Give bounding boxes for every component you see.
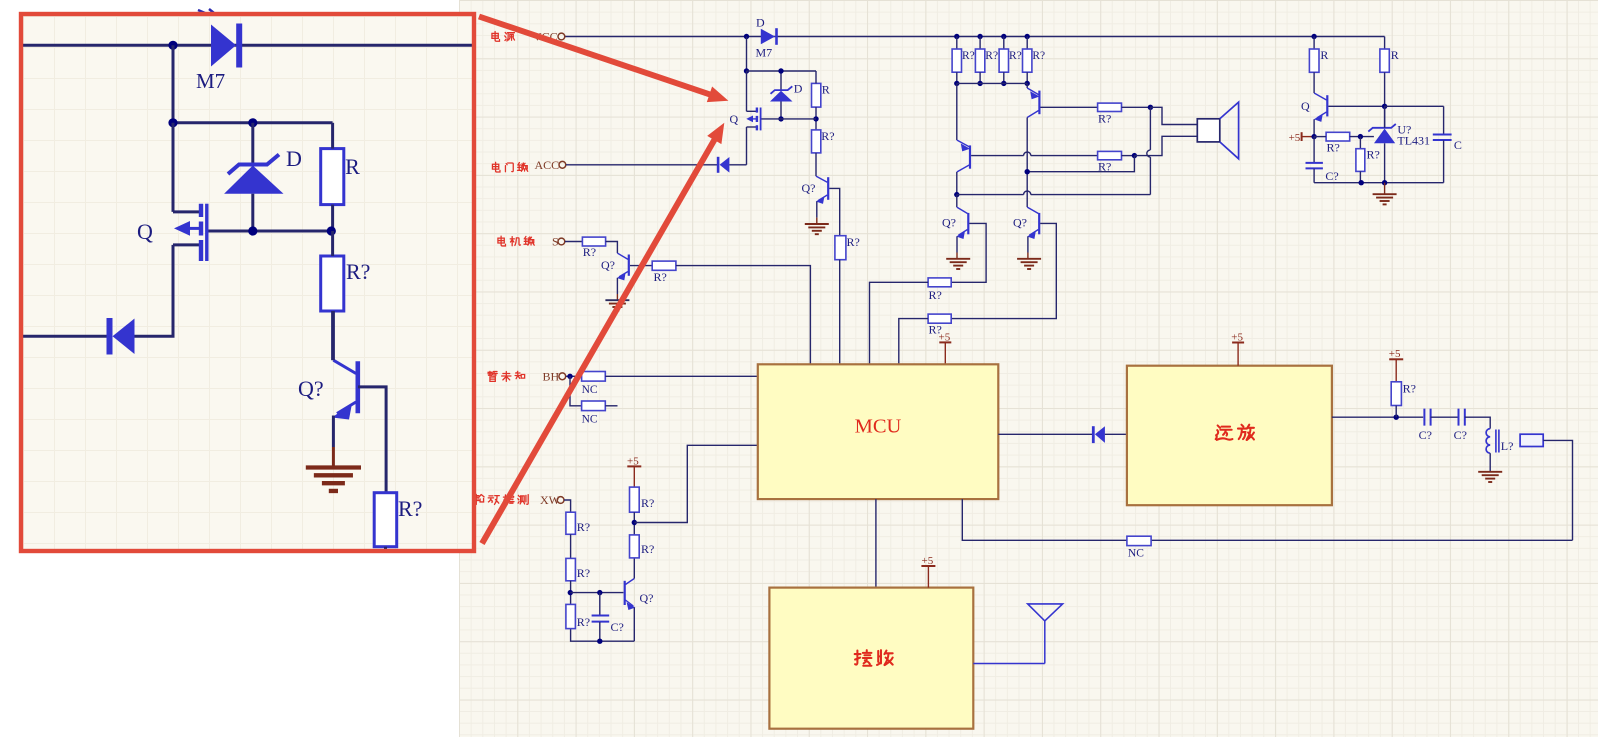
diode D M7 (main) xyxy=(761,28,778,45)
transistor Q? T3 xyxy=(956,195,968,239)
resistor R? (speaker row 2) xyxy=(1098,151,1122,159)
wire: MCU to RX xyxy=(875,499,877,587)
node: T1 collector mid junction xyxy=(1025,169,1030,174)
ground (TL431) xyxy=(1384,183,1386,195)
wire: R top lead (inset) xyxy=(331,123,334,149)
block MCU xyxy=(758,364,999,499)
svg-text:C?: C? xyxy=(1454,428,1467,442)
node: output junction xyxy=(1394,415,1399,420)
svg-text:+5: +5 xyxy=(1231,331,1243,343)
mosfet Q (inset) xyxy=(173,123,207,336)
svg-text:Q?: Q? xyxy=(1013,216,1027,230)
wire: row2 to speaker xyxy=(1122,155,1135,157)
wire: C2 to inductor xyxy=(1465,417,1490,428)
transistor Q? (inset) xyxy=(332,360,358,419)
transistor Q? (XW) xyxy=(625,579,636,611)
wire: XW2 down + bottom rail xyxy=(571,581,635,641)
svg-text:R?: R? xyxy=(577,615,590,629)
wire: XW Q? collector xyxy=(633,558,635,579)
wire: R? to junction xyxy=(1395,406,1397,418)
ground (T4) xyxy=(1027,253,1029,259)
wire: R? to bottom rail xyxy=(1359,171,1361,182)
wire: R top lead xyxy=(815,71,817,83)
svg-text:Q?: Q? xyxy=(802,181,816,195)
resistor R? (bank 3) xyxy=(1003,37,1005,50)
+5 (MCU top) xyxy=(939,341,951,343)
label dianjisuo (motor lock) xyxy=(498,236,506,246)
node: VCC bank junction 3 xyxy=(1001,34,1006,39)
port BH xyxy=(559,373,566,380)
wire: R? top lead (inset) xyxy=(331,231,334,256)
resistor R? (XW 2) xyxy=(566,558,576,580)
svg-text:M7: M7 xyxy=(196,69,225,93)
wire: Q? base lead xyxy=(829,188,839,235)
wire: gate rail y=231 (inset) xyxy=(208,230,333,233)
svg-text:R?: R? xyxy=(847,235,860,249)
antenna xyxy=(973,604,1062,664)
wire: inset horizontal rail y=122.8 xyxy=(173,121,333,124)
mosfet Q (main) xyxy=(746,71,760,165)
block OPAMP (yunfang) xyxy=(1127,366,1332,506)
wire: S base resistor to MCU xyxy=(676,266,811,365)
PNP T2 (left) xyxy=(957,83,970,172)
svg-text:R?: R? xyxy=(1327,141,1340,155)
port S xyxy=(558,238,565,245)
resistor R? (T4 base) xyxy=(928,314,951,323)
svg-text:C?: C? xyxy=(611,620,624,634)
+5 (TL431) xyxy=(1301,132,1303,141)
node: VCC junction (TL431) xyxy=(1311,34,1316,39)
wire: T4 emitter down xyxy=(1027,237,1029,253)
resistor R? (TL431 lower) xyxy=(1359,137,1361,149)
wire: row2 junction drop xyxy=(1027,156,1134,172)
wire: connector loop to NC rail xyxy=(1543,440,1572,540)
wire: T2 collector down xyxy=(956,172,958,195)
svg-text:C?: C? xyxy=(1325,169,1338,183)
resistor R? (gate divider) xyxy=(812,130,821,153)
wire: junction to speaker top lead xyxy=(1150,107,1197,124)
label dianyuan (power) xyxy=(492,31,500,41)
resistor NC 2 xyxy=(582,401,606,411)
wire: S lead xyxy=(565,241,582,243)
label jieshou (receiver title) xyxy=(855,650,872,666)
node: inset top junction xyxy=(168,41,177,50)
svg-text:R?: R? xyxy=(1403,382,1416,396)
svg-text:D: D xyxy=(286,146,302,171)
resistor R? (bank 4) xyxy=(1026,37,1028,50)
wire: inset emitter down xyxy=(332,416,335,448)
svg-text:R?: R? xyxy=(641,542,654,556)
resistor R (inset) xyxy=(321,149,344,205)
resistor NC (rail) xyxy=(1127,536,1151,545)
svg-text:R?: R? xyxy=(654,270,667,284)
wire: R? to ref junction xyxy=(1350,136,1374,138)
ground (inset) xyxy=(332,447,335,466)
svg-text:NC: NC xyxy=(582,384,598,396)
port ACC xyxy=(559,161,566,168)
port VCC xyxy=(558,33,565,40)
node: mosfet top junction xyxy=(744,68,749,73)
+5 (opamp) xyxy=(1232,342,1244,344)
svg-text:+5: +5 xyxy=(939,331,951,343)
wire: VCC drop to mosfet xyxy=(746,37,748,72)
wire: R? to Q? collector xyxy=(815,153,817,176)
svg-text:R?: R? xyxy=(641,496,654,510)
wire: C1-C2 xyxy=(1431,416,1459,418)
wire: NC1 to MCU xyxy=(605,375,758,377)
annotation arrow 1 (top) xyxy=(478,14,728,102)
wire: Q? emitter down xyxy=(816,202,818,218)
inductor L? xyxy=(1486,429,1499,454)
svg-text:NC: NC xyxy=(1128,548,1144,560)
wire: S resistor to Q? xyxy=(606,242,618,254)
wire: XW1-XW2 xyxy=(570,534,572,558)
resistor R (TL431 right) xyxy=(1380,49,1389,72)
wire: diode to opamp xyxy=(1105,433,1127,435)
capacitor C? (TL431 left) xyxy=(1306,137,1323,183)
wire: VCC corner to R right xyxy=(1384,37,1386,50)
wire: T4 base resistor to MCU xyxy=(899,319,928,365)
+5 (output) xyxy=(1389,358,1403,360)
wire: MCU right to diode xyxy=(998,433,1092,435)
wire: XW lead xyxy=(564,500,571,512)
wire: opamp output xyxy=(1332,416,1423,418)
node: +5 junction xyxy=(1311,134,1316,139)
resistor R? (inset, gate divider) xyxy=(321,256,344,311)
svg-text:S: S xyxy=(552,235,559,249)
wire: diode to mosfet source (inset) xyxy=(135,335,175,338)
node: XW divider junction xyxy=(568,590,573,595)
svg-text:R?: R? xyxy=(577,566,590,580)
TL431 U? xyxy=(1368,124,1396,143)
node: VCC bank junction 1 xyxy=(954,34,959,39)
svg-text:R?: R? xyxy=(1009,50,1022,62)
wire: inset left diode rail xyxy=(23,335,107,338)
svg-text:Q?: Q? xyxy=(942,216,956,230)
resistor NC 1 xyxy=(582,372,606,382)
transistor T1 (PNP top) xyxy=(1027,83,1039,117)
resistor R? (T3 base) xyxy=(928,278,951,287)
node: inset R junction xyxy=(327,226,336,235)
wire: R bottom lead xyxy=(815,107,817,130)
svg-text:Q: Q xyxy=(137,219,153,244)
resistor R? (S series) xyxy=(582,237,605,246)
wire: bottom rail (TL431) xyxy=(1314,182,1444,184)
wire: +5 junction to R? xyxy=(1314,136,1326,138)
resistor R? (XW 1) xyxy=(566,512,576,534)
node: C? bottom junction xyxy=(597,639,602,644)
wire: row1 to speaker xyxy=(1122,106,1151,108)
ground (S branch) xyxy=(616,294,618,300)
svg-text:R?: R? xyxy=(962,50,975,62)
node: bank bottom junction 4 xyxy=(1025,81,1030,86)
svg-text:Q: Q xyxy=(1301,99,1310,113)
svg-text:R: R xyxy=(1391,48,1399,62)
wire: zener top lead (inset) xyxy=(251,123,254,164)
ground (Q? emitter) xyxy=(816,218,818,224)
resistor R? (output pullup) xyxy=(1391,382,1401,406)
speaker LS xyxy=(1197,102,1238,159)
inset panel background handled by divs xyxy=(0,0,1,1)
ground (output filter) xyxy=(1478,471,1502,473)
svg-text:+5: +5 xyxy=(1289,132,1301,144)
wire: T3 collector rail with hop xyxy=(957,194,1024,196)
transistor Q? (gate pull-down) xyxy=(816,176,828,204)
resistor R? (speaker row 1) xyxy=(1098,103,1122,111)
node: C? top junction xyxy=(597,590,602,595)
wire: S Q? base lead xyxy=(630,265,652,267)
wire: zener top lead xyxy=(780,71,782,90)
wire: T1 base lead xyxy=(1041,106,1098,108)
svg-text:C?: C? xyxy=(1419,428,1432,442)
wire: NC2 stub xyxy=(605,405,617,407)
wire: T2 base lead with hop xyxy=(971,155,1024,157)
wire: R4-R5 link xyxy=(633,512,635,535)
svg-text:R?: R? xyxy=(985,50,998,62)
node: BH junction xyxy=(567,374,572,379)
wire: inset collector lead xyxy=(332,311,335,360)
wire: MCU bottom right to NC rail xyxy=(962,499,1127,540)
svg-text:TL431: TL431 xyxy=(1397,133,1430,147)
node: gate junction 1 xyxy=(778,116,783,121)
resistor R (TL431 left) xyxy=(1313,37,1315,50)
node: row2 junction xyxy=(1132,153,1137,158)
svg-text:+5: +5 xyxy=(627,456,639,468)
svg-text:Q: Q xyxy=(730,112,739,126)
svg-text:R?: R? xyxy=(1032,50,1045,62)
svg-text:R: R xyxy=(345,154,360,179)
node: bottom junction anode xyxy=(1382,180,1387,185)
wire: T3 emitter down xyxy=(956,237,958,253)
svg-text:D: D xyxy=(794,82,803,96)
label yunfang (opamp title) xyxy=(1216,425,1233,439)
wire: row2 to speaker bottom lead xyxy=(1134,136,1197,155)
port XW xyxy=(557,497,564,504)
node: ref junction xyxy=(1358,134,1363,139)
inset border frame xyxy=(21,14,474,551)
wire: T4 base loop xyxy=(951,223,1056,318)
wire: sense to MCU xyxy=(634,445,758,522)
svg-text:+5: +5 xyxy=(1389,348,1401,360)
resistor R? (bank 2) xyxy=(979,37,981,50)
node: VCC/M7 junction xyxy=(744,34,749,39)
wire: cathode lead xyxy=(1384,106,1386,128)
wire: ACC lead xyxy=(566,164,717,166)
wire: ACC diode to mosfet xyxy=(729,164,746,166)
wire: Q base lead xyxy=(1328,105,1384,107)
wire: zener bottom lead xyxy=(780,102,782,119)
transistor Q? T4 xyxy=(1027,207,1039,239)
svg-text:C: C xyxy=(1454,138,1462,152)
wire: R to Q collector xyxy=(1313,72,1315,93)
wire: cathode top loop xyxy=(1385,105,1444,107)
svg-text:R?: R? xyxy=(929,288,942,302)
block RX (jieshou) xyxy=(769,588,973,729)
wire: Q emitter down xyxy=(1313,119,1315,136)
svg-text:Q?: Q? xyxy=(640,591,654,605)
+5 (RX) xyxy=(921,565,935,567)
+5 (XW) xyxy=(627,465,641,467)
label dianmensuo (ACC lock) xyxy=(492,162,500,172)
wire: BH lead xyxy=(566,375,582,377)
node: VCC bank junction 4 xyxy=(1025,34,1030,39)
node: gate junction 2 xyxy=(813,116,818,121)
node: speaker junction 1 xyxy=(1148,105,1153,110)
wire: VCC rail xyxy=(565,36,1385,38)
node: bank bottom junction 1 xyxy=(954,81,959,86)
wire: S Q? emitter down xyxy=(616,278,618,294)
wire: R bottom lead (inset) xyxy=(331,205,334,231)
svg-text:+5: +5 xyxy=(922,555,934,567)
resistor R? (base, right) xyxy=(835,236,846,260)
svg-text:R: R xyxy=(822,83,830,97)
svg-text:BH: BH xyxy=(543,370,560,384)
wire: R? bottom to transistor (inset) xyxy=(331,311,334,360)
resistor R? (+5 XW) xyxy=(630,487,640,512)
svg-text:R?: R? xyxy=(821,129,834,143)
capacitor C (TL431 right) xyxy=(1433,106,1452,182)
resistor R? (inset bottom) xyxy=(374,493,397,547)
node: VCC bank junction 2 xyxy=(977,34,982,39)
wire: top rail to R xyxy=(747,70,817,72)
diode M7 (inset) xyxy=(211,24,242,68)
svg-text:R?: R? xyxy=(398,496,422,521)
svg-text:Q?: Q? xyxy=(298,376,324,401)
wire: bank bottom rail xyxy=(957,82,1027,84)
wire: gate lead xyxy=(762,118,817,120)
annotation arrow 2 (bottom) xyxy=(479,123,724,545)
diode (inset left, pointing left) xyxy=(107,318,135,355)
svg-text:R: R xyxy=(1320,48,1328,62)
cut-off text fragment above inset xyxy=(198,9,214,13)
svg-text:R?: R? xyxy=(1367,148,1380,162)
main schematic grid background xyxy=(459,0,1598,737)
resistor R? (S base) xyxy=(652,261,676,270)
svg-text:NC: NC xyxy=(582,414,598,426)
svg-text:L?: L? xyxy=(1501,439,1514,453)
wire: NC rail xyxy=(1151,539,1572,541)
transistor Q (TL431) xyxy=(1314,93,1327,122)
capacitor C? (output 2) xyxy=(1459,409,1465,426)
resistor R? (bank 1) xyxy=(956,37,958,50)
transistor Q? (S branch) xyxy=(617,253,629,280)
wire: XW base rail xyxy=(570,592,623,594)
wire: T3 base loop xyxy=(951,223,986,282)
inset zoom panel background xyxy=(23,16,472,549)
wire: XW Q? emitter xyxy=(633,608,635,642)
zener diode D (main) xyxy=(770,86,793,101)
node: T3 collector junction xyxy=(954,192,959,197)
svg-text:MCU: MCU xyxy=(855,416,902,438)
node: bank bottom junction 2 xyxy=(977,81,982,86)
node: base/cathode junction xyxy=(1382,104,1387,109)
node: zener rail junction xyxy=(778,68,783,73)
svg-text:ACC: ACC xyxy=(535,158,560,172)
wire: BH drop to NC2 xyxy=(570,376,582,406)
resistor R? (TL431 series) xyxy=(1326,132,1350,141)
wire: R right down xyxy=(1384,72,1386,128)
resistor R (gate top) xyxy=(812,83,821,107)
diode (MCU-opamp, pointing left) xyxy=(1092,426,1105,443)
label lundongjiance (rotation detect) xyxy=(474,494,485,504)
connector (output) xyxy=(1520,434,1543,446)
node: bank bottom junction 3 xyxy=(1001,81,1006,86)
wire: inset R? bottom stub xyxy=(384,547,387,550)
svg-text:M7: M7 xyxy=(756,46,773,60)
capacitor C? (output 1) xyxy=(1424,409,1430,426)
wire: inset base lead xyxy=(358,387,386,493)
resistor R? (XW 3) xyxy=(566,604,576,628)
node: inset junction zener top xyxy=(248,118,257,127)
diode (ACC, pointing left) xyxy=(717,157,730,173)
svg-text:Q?: Q? xyxy=(601,258,615,272)
wire: anode down xyxy=(1384,143,1386,182)
wire: T3 base resistor to MCU xyxy=(870,282,929,364)
wire: speaker junction down with hop xyxy=(1149,107,1151,150)
node: inset gate junction xyxy=(248,226,257,235)
capacitor C? (XW) xyxy=(592,593,610,642)
resistor R? (XW 5) xyxy=(630,535,640,558)
svg-text:R?: R? xyxy=(346,259,370,284)
wire: T1 collector down xyxy=(1026,118,1028,208)
wire: inset vertical from top junction xyxy=(172,45,175,123)
node: XW sense junction xyxy=(632,520,637,525)
wire: R? down to MCU xyxy=(839,260,841,365)
svg-text:R?: R? xyxy=(583,245,596,259)
wire: zener bottom lead (inset) xyxy=(251,194,254,231)
svg-text:R?: R? xyxy=(1098,111,1111,125)
svg-text:D: D xyxy=(756,16,765,30)
label zanweizhi (unknown) xyxy=(488,371,497,381)
node: bottom junction R? xyxy=(1359,180,1364,185)
svg-text:XW: XW xyxy=(540,493,561,507)
node: inset junction left xyxy=(168,118,177,127)
zener diode D (inset) xyxy=(224,155,283,194)
svg-text:R?: R? xyxy=(577,520,590,534)
wire: inductor to ground xyxy=(1489,453,1491,472)
ground (T3) xyxy=(956,253,958,259)
wire: inset top rail xyxy=(23,44,472,47)
